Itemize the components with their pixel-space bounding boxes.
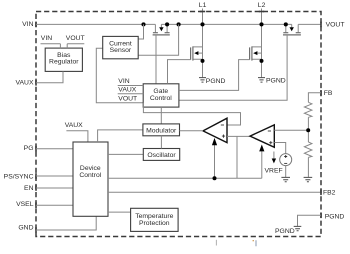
svg-text:VOUT: VOUT: [66, 35, 85, 42]
box Current Sensor: [103, 36, 139, 58]
svg-text:VIN: VIN: [22, 21, 33, 28]
wire link T1+ line to ramp line: [236, 136, 238, 178]
pin FB: [321, 90, 333, 97]
box Temperature Protection: [131, 208, 179, 231]
label VAUX (gate control input): [118, 87, 144, 94]
wire rail VOUT section: [298, 23, 321, 25]
svg-text:VOUT: VOUT: [326, 22, 345, 29]
label VIN (bias input): [41, 35, 61, 48]
svg-text:PGND: PGND: [275, 228, 295, 235]
wire T2 minus to FB divider: [274, 129, 308, 131]
op-amp T1 (PWM comparator): [203, 118, 227, 142]
wire gate control to M2 gate: [168, 60, 191, 84]
arrow VREF current direction: [272, 152, 276, 164]
node M4 left terminal: [284, 22, 288, 26]
svg-text:VOUT: VOUT: [118, 95, 137, 102]
wire VOUT sense to comparator minus: [143, 103, 240, 125]
svg-text:EN: EN: [24, 185, 34, 192]
box Modulator: [143, 124, 180, 136]
arrow ramp into T1: [212, 138, 217, 180]
svg-text:VIN: VIN: [41, 35, 52, 42]
svg-text:VAUX: VAUX: [65, 122, 83, 129]
svg-text:L1: L1: [199, 2, 207, 9]
ground PGND (under M2): [199, 78, 226, 86]
ground (PGND): [294, 226, 302, 230]
pin VSEL: [16, 201, 36, 208]
pin PG: [24, 145, 36, 152]
wire R2 to ground: [307, 157, 309, 177]
ground (under R2): [304, 177, 313, 181]
wire current sensor tap left: [138, 24, 143, 39]
wire PS/SYNC: [36, 175, 73, 177]
wire rail L1 section: [167, 23, 286, 25]
pin VOUT: [321, 22, 344, 29]
wire R1 to R2: [307, 117, 309, 142]
svg-text:L2: L2: [258, 2, 266, 9]
transistor M3 (boost low-side, at L2): [250, 24, 264, 77]
node: current sense tap 2: [177, 22, 181, 26]
svg-text:VAUX: VAUX: [15, 79, 33, 86]
wire T2 plus to VREF source: [274, 143, 285, 154]
wire device control to FB2: [108, 191, 321, 193]
resistor R2: [304, 142, 312, 157]
svg-text:VAUX: VAUX: [118, 87, 136, 94]
resistor R1: [304, 102, 312, 117]
svg-text:FB: FB: [324, 90, 333, 97]
svg-text:Device: Device: [80, 165, 101, 172]
transistor M2 (buck low-side, at L1): [191, 24, 205, 77]
wire VSEL: [36, 204, 73, 206]
svg-text:PGND: PGND: [206, 78, 226, 85]
svg-text:Control: Control: [150, 95, 172, 102]
node L1: [200, 22, 204, 26]
label VIN (gate control input): [118, 78, 144, 85]
transistor M1 (buck high-side, horizontal): [153, 24, 170, 83]
box Oscillator: [143, 149, 179, 161]
pin VAUX: [15, 79, 36, 86]
node: M1 right terminal: [165, 22, 169, 26]
label VOUT (gate control input): [118, 95, 137, 102]
IC boundary (dashed): [36, 12, 321, 237]
box Bias Regulator: [45, 48, 82, 71]
wire device control ramp line: [108, 177, 262, 179]
wire M4 gate to Gate Control: [179, 35, 287, 100]
pin VIN: [22, 21, 36, 28]
node FB divider: [306, 128, 310, 132]
wire L2 to rail: [261, 9, 263, 25]
node: current sense tap 1: [141, 22, 145, 26]
wire FB to divider: [308, 93, 321, 103]
svg-text:Protection: Protection: [139, 220, 170, 227]
ground PGND (under M3): [258, 78, 286, 85]
wire device control to oscillator: [108, 153, 143, 155]
svg-text:Regulator: Regulator: [49, 59, 79, 66]
current source VREF: [280, 154, 292, 166]
wire PG: [36, 148, 73, 150]
svg-text:Oscillator: Oscillator: [147, 152, 176, 159]
pin GND: [18, 224, 36, 233]
wire gate control to modulator: [160, 107, 162, 124]
wire gate control to M3 gate: [179, 60, 250, 91]
svg-text:PGND: PGND: [325, 214, 345, 221]
pin PS/SYNC: [4, 173, 36, 180]
pin PGND: [321, 213, 344, 221]
pin FB2: [321, 190, 336, 197]
wire PGND to ground: [298, 215, 322, 226]
pin L1: [199, 2, 207, 25]
svg-text:PS/SYNC: PS/SYNC: [4, 174, 34, 181]
wire EN: [36, 187, 73, 189]
transistor M4 (output rectifier, horizontal): [179, 24, 301, 100]
wire VIN rail: [36, 23, 155, 25]
svg-text:Sensor: Sensor: [110, 47, 132, 54]
node L2: [259, 22, 263, 26]
wire VAUX to bias regulator: [36, 71, 63, 82]
stray caption remnants below border: [215, 240, 217, 246]
svg-text:GND: GND: [18, 224, 33, 231]
svg-text:Control: Control: [79, 172, 101, 179]
wire modulator-oscillator: [160, 136, 162, 149]
ground (under VREF): [281, 177, 290, 181]
arrow ramp into T2: [259, 145, 264, 179]
op-amp T2 (error amplifier): [250, 125, 274, 147]
svg-text:VSEL: VSEL: [16, 201, 34, 208]
svg-text:VREF: VREF: [265, 168, 283, 175]
wire modulator to T1 output: [180, 130, 204, 132]
svg-text:VIN: VIN: [118, 78, 129, 85]
box Gate Control: [143, 84, 179, 107]
pin L2: [258, 2, 266, 25]
pin EN: [24, 185, 36, 192]
wire current sensor left pin down to VOUT sense line: [96, 48, 143, 103]
wire current sensor tap right: [138, 24, 178, 55]
label VAUX (device control supply): [65, 122, 88, 142]
svg-text:Modulator: Modulator: [146, 127, 177, 134]
wire M1 gate to Gate Control: [155, 35, 157, 84]
wire device control to temperature protection: [108, 211, 131, 213]
label VOUT (bias input): [66, 35, 85, 48]
svg-text:PG: PG: [24, 145, 34, 152]
wire VREF to ground: [285, 166, 287, 178]
svg-text:FB2: FB2: [323, 190, 336, 197]
wire L1 to VIN rail: [202, 9, 204, 25]
box Device Control: [73, 142, 108, 216]
wire GND to device control: [36, 216, 96, 230]
svg-text:PGND: PGND: [266, 78, 286, 85]
wire T2 output to T1 plus: [227, 135, 250, 137]
wire device control to modulator: [98, 130, 143, 142]
